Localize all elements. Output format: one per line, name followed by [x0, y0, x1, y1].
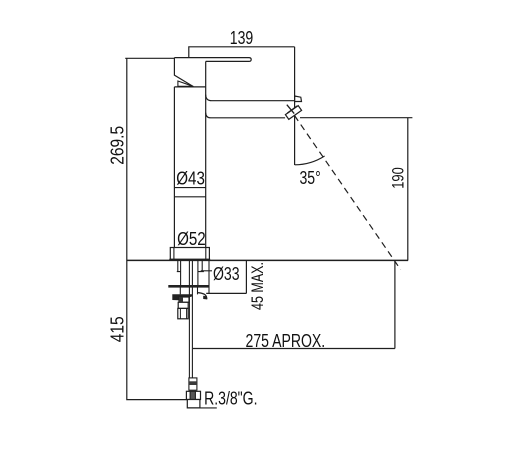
svg-text:415: 415 — [107, 316, 128, 342]
svg-text:275 APROX.: 275 APROX. — [246, 331, 326, 351]
svg-text:45 MAX.: 45 MAX. — [249, 262, 267, 310]
svg-text:Ø33: Ø33 — [213, 264, 240, 284]
svg-text:Ø43: Ø43 — [176, 168, 205, 189]
svg-text:269.5: 269.5 — [107, 126, 128, 165]
svg-text:Ø52: Ø52 — [177, 229, 206, 250]
svg-text:35°: 35° — [299, 168, 320, 188]
svg-text:139: 139 — [230, 28, 253, 48]
svg-text:R.3/8"G.: R.3/8"G. — [204, 389, 257, 409]
svg-text:190: 190 — [389, 167, 408, 189]
